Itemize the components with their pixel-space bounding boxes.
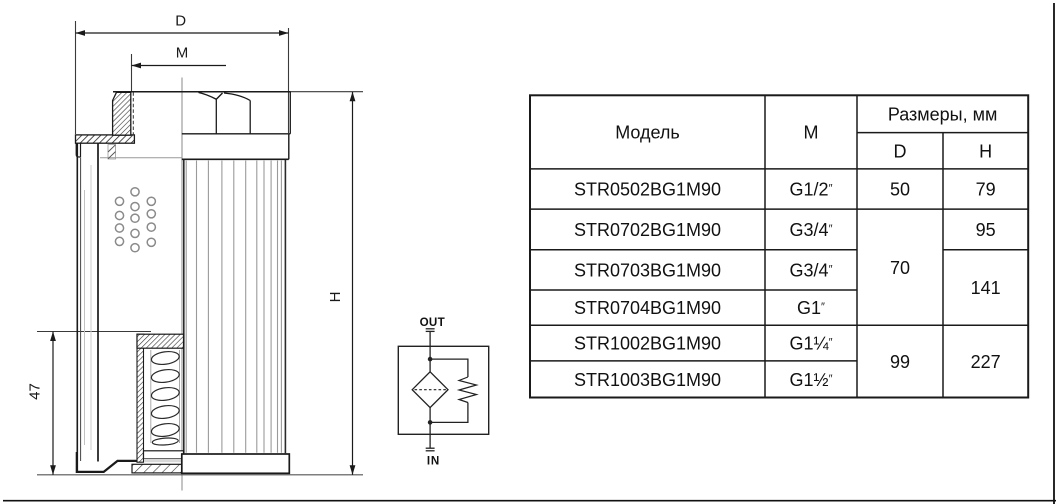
svg-text:70: 70: [890, 258, 910, 278]
svg-text:141: 141: [971, 278, 1001, 298]
svg-text:Размеры, мм: Размеры, мм: [888, 105, 998, 125]
wire OUT to filter: [429, 331, 431, 371]
wire bypass upper: [430, 359, 468, 377]
standpipe hatched bar: [137, 334, 144, 462]
flange lip: [76, 143, 80, 157]
svg-text:95: 95: [976, 220, 996, 240]
filter element diamond: [412, 372, 448, 408]
svg-text:D: D: [894, 142, 907, 162]
spring coils: [150, 350, 152, 443]
svg-text:M: M: [804, 123, 819, 143]
svg-text:STR1003BG1M90: STR1003BG1M90: [574, 370, 721, 390]
filter mesh dashed line: [415, 389, 447, 391]
svg-text:STR0703BG1M90: STR0703BG1M90: [574, 260, 721, 280]
svg-text:50: 50: [890, 180, 910, 200]
bypass valve spring: [459, 377, 477, 403]
svg-text:STR0704BG1M90: STR0704BG1M90: [574, 298, 721, 318]
svg-text:G3/4″: G3/4″: [790, 220, 833, 240]
nut exterior: [113, 91, 291, 93]
svg-text:227: 227: [971, 352, 1001, 372]
svg-text:M: M: [176, 45, 189, 62]
svg-text:H: H: [979, 142, 992, 162]
svg-text:G3/4″: G3/4″: [790, 260, 833, 280]
hydraulic schematic: suction strainer symbol: [398, 316, 488, 468]
dimension D: [76, 13, 289, 135]
spring top cap hatched: [137, 334, 184, 348]
port OUT tick marks: [426, 328, 435, 330]
page frame remnants: [1053, 3, 1055, 504]
dimension M: [132, 45, 227, 93]
svg-text:79: 79: [976, 180, 996, 200]
table: [530, 95, 1028, 397]
svg-text:STR0502BG1M90: STR0502BG1M90: [574, 180, 721, 200]
dimension 47: [27, 332, 152, 475]
junction bottom: [428, 420, 433, 425]
svg-text:OUT: OUT: [420, 316, 445, 329]
wire filter to IN: [429, 408, 431, 449]
port IN tick marks: [426, 447, 435, 449]
svg-text:Модель: Модель: [615, 123, 680, 143]
thread dashed line: [132, 92, 134, 135]
bottom hatched strip (section): [132, 464, 182, 473]
nut section hatch block: [113, 92, 131, 135]
svg-text:D: D: [175, 13, 186, 30]
housing left wall: [76, 144, 78, 472]
svg-text:G1½″: G1½″: [790, 370, 833, 390]
housing foot / bottom: [77, 452, 137, 472]
wire bypass lower: [430, 403, 468, 423]
flange plate (section, hatched): [76, 135, 135, 143]
envelope box: [398, 346, 488, 434]
svg-text:47: 47: [27, 383, 44, 400]
dimension H: [37, 92, 363, 475]
spring bottom seat: [144, 451, 184, 459]
small hatched boss under flange: [108, 145, 116, 160]
svg-text:99: 99: [890, 352, 910, 372]
svg-text:G1¼″: G1¼″: [790, 334, 833, 354]
bottom cap (exterior): [182, 454, 289, 473]
pleated element: [186, 161, 281, 453]
svg-text:H: H: [327, 292, 344, 303]
top cap band: [288, 134, 290, 160]
perforation holes: [115, 188, 155, 252]
centerline: [181, 78, 183, 491]
svg-text:G1″: G1″: [797, 298, 825, 318]
svg-text:STR0702BG1M90: STR0702BG1M90: [574, 220, 721, 240]
svg-text:IN: IN: [427, 454, 440, 467]
svg-text:STR1002BG1M90: STR1002BG1M90: [574, 334, 721, 354]
junction top: [428, 357, 433, 362]
svg-text:G1/2″: G1/2″: [790, 180, 833, 200]
